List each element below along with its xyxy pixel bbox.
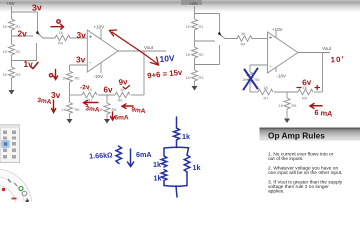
wire middle tap (right): [195, 40, 216, 42]
resistor R2 (left): [9, 44, 15, 55]
wire R5 to bottom node (right): [249, 83, 251, 92]
svg-text:R2: R2: [199, 52, 204, 57]
blue sketch wire resistor to parallel top bar: [176, 140, 178, 148]
svg-text:6v: 6v: [104, 86, 113, 95]
svg-text:1k: 1k: [153, 160, 161, 169]
toolbar palette panel: [0, 125, 20, 163]
wire R7 to 6V node (left): [98, 94, 115, 96]
blue sketch right branch lower wire: [186, 172, 188, 186]
wire R2 to R3 (right): [194, 58, 196, 70]
wire op-amp plus input (left): [70, 64, 88, 66]
ground symbol below R8 (right): [284, 119, 290, 124]
svg-text:one input will be on the other: one input will be on the other input.: [268, 170, 342, 176]
annotation minus sign left of 6V (right): [297, 87, 301, 89]
op-amp U2 triangle (right): [268, 32, 299, 73]
svg-text:+9V: +9V: [7, 1, 16, 6]
svg-text:6mA: 6mA: [136, 150, 152, 159]
resistor R5 (right): [247, 72, 253, 83]
annotation left arrow with 3mA under R7 (left): [84, 100, 99, 105]
wire feedback vertical from Vout (right): [322, 53, 324, 93]
svg-text:out of the inputs.: out of the inputs.: [268, 156, 303, 162]
wiper arrow of divider tap (right): [218, 31, 222, 36]
wire op-amp output to Vout (right): [298, 52, 330, 54]
svg-text:R9: R9: [302, 96, 307, 101]
svg-text:1k: 1k: [193, 163, 201, 172]
svg-text:+: +: [89, 35, 92, 41]
wire wiper to R4 (left): [39, 34, 56, 38]
svg-text:1K: 1K: [241, 31, 246, 36]
wire minus input down to R5 (right): [249, 65, 251, 72]
svg-text:+: +: [269, 36, 272, 42]
svg-text:1.66kΩ: 1.66kΩ: [89, 150, 113, 160]
wire -10V supply (right): [275, 68, 277, 73]
svg-text:-2v: -2v: [80, 84, 90, 92]
wire op-amp output to Vout (left): [118, 50, 166, 52]
svg-text:applies.: applies.: [268, 189, 285, 195]
svg-text:R8: R8: [292, 103, 297, 108]
blue sketch left branch resistor 1k lower: [161, 170, 167, 181]
svg-text:1K: 1K: [62, 76, 67, 81]
op-amp U1 triangle (left): [87, 30, 118, 72]
wire R9 to feedback corner (left): [131, 94, 144, 96]
svg-text:10ʼ: 10ʼ: [330, 55, 345, 65]
svg-text:R9: R9: [118, 98, 123, 103]
annotation down arrow for 3mA (left): [52, 100, 56, 113]
wire R1 to R2 (left): [11, 30, 13, 44]
svg-text:1K: 1K: [186, 75, 191, 80]
wire +10V supply (right): [275, 31, 277, 38]
svg-text:+9V: +9V: [190, 1, 199, 6]
wire R9 to feedback corner (right): [314, 91, 323, 93]
window top gradient bar: [0, 0, 360, 12]
wire R8 to ground (right): [286, 109, 288, 118]
wire R3 to ground (left): [11, 78, 13, 90]
resistor R7 (right): [258, 89, 273, 95]
dark title patch above right page: [181, 0, 202, 5]
svg-text:-10V: -10V: [94, 74, 104, 79]
svg-text:1K: 1K: [242, 77, 247, 82]
svg-text:3v: 3v: [76, 55, 86, 65]
radial pen menu at bottom-left corner: [0, 169, 32, 240]
blue X deleting R5 (right): [244, 69, 258, 90]
wire lower tap horizontal (right): [195, 64, 220, 66]
wire plus input down to R5 (left): [69, 65, 71, 71]
svg-text:Op Amp Rules: Op Amp Rules: [268, 131, 325, 141]
resistor R4 (left): [55, 35, 70, 41]
svg-text:2v: 2v: [18, 29, 28, 39]
resistor R3 (right): [192, 70, 198, 81]
wire R3 to ground (right): [194, 81, 196, 86]
svg-text:R3: R3: [16, 72, 21, 77]
svg-text:R8: R8: [112, 107, 117, 112]
wire 3V node down to R6 (left): [69, 95, 71, 103]
resistor R7 (left): [82, 92, 97, 98]
resistor R9 (left): [115, 92, 130, 98]
svg-text:-10V: -10V: [277, 74, 287, 79]
svg-text:R4: R4: [241, 42, 247, 47]
svg-text:1K: 1K: [264, 85, 269, 90]
svg-text:1K: 1K: [186, 52, 191, 57]
wire 1V tap vertical rise (left): [36, 43, 38, 61]
svg-text:R6: R6: [75, 107, 80, 112]
ground symbol below R8 (left): [104, 119, 110, 124]
wire R4 to op-amp plus input (right): [252, 38, 268, 40]
svg-text:Vout: Vout: [322, 46, 332, 51]
svg-text:1k: 1k: [154, 174, 162, 183]
wire +9V to R1 top (left): [11, 6, 13, 19]
svg-text:10V: 10V: [159, 53, 175, 64]
wire 3V tap vertical drop to wiper (left): [37, 12, 39, 30]
svg-text:R5: R5: [75, 76, 80, 81]
pen icons on ring: [8, 179, 11, 183]
wire top tap vertical drop to wiper (right): [219, 14, 221, 32]
svg-text:Vout: Vout: [144, 45, 154, 50]
svg-text:R5: R5: [255, 77, 260, 82]
svg-text:1K: 1K: [99, 107, 104, 112]
annotation down arrow 6mA below R8 (left): [111, 112, 115, 120]
wire node down to R8 (right): [286, 92, 288, 98]
svg-text:6v: 6v: [302, 78, 312, 88]
annotation left arrow with 9mA right of R8 (left): [122, 104, 133, 109]
wire 2V tap (left): [12, 35, 34, 37]
annotation double-headed arrow across output (left): [110, 30, 159, 65]
wire 3V tap horizontal (left): [12, 11, 38, 13]
blue sketch left branch resistor 1k upper: [161, 156, 167, 167]
svg-text:1K: 1K: [62, 107, 67, 112]
blue sketch right branch upper wire: [187, 148, 189, 155]
wire -10V supply (left): [100, 63, 102, 74]
wiper arrow of divider tap (left): [36, 30, 40, 35]
wire R7 to R9 node (right): [274, 91, 298, 93]
svg-text:1K: 1K: [3, 72, 8, 77]
wire +10V supply (left): [100, 29, 102, 40]
annotation tick below 9V (left): [123, 86, 130, 90]
wire wiper to R4 (right): [221, 35, 238, 39]
resistor R8 (right): [284, 98, 290, 109]
wire R4 to op-amp inverting stub (left): [70, 37, 87, 39]
ground symbol below R3 (left): [9, 90, 15, 95]
svg-text:R4: R4: [58, 41, 64, 46]
svg-text:1K: 1K: [279, 103, 284, 108]
svg-text:R7: R7: [88, 98, 93, 103]
blue sketch parallel top bar: [164, 146, 189, 149]
wire op-amp minus input (right): [250, 64, 268, 66]
annotation 0 current with right arrow above R4 (left): [51, 20, 64, 29]
svg-text:1k: 1k: [182, 132, 190, 141]
wire R1 to R2 (right): [194, 30, 196, 47]
blue sketch left branch upper wire: [163, 148, 165, 156]
wire R2 to R3 (left): [11, 55, 13, 67]
annotation checkmark near 1V wire (left): [31, 63, 39, 69]
wire +9V to R1 top (right): [194, 6, 196, 19]
wire R8 to ground (left): [106, 114, 108, 119]
blue sketch bottom stem wire: [176, 186, 177, 197]
svg-text:+10V: +10V: [94, 25, 105, 30]
Op Amp Rules header bar: [260, 128, 360, 141]
svg-text:R7: R7: [264, 96, 269, 101]
blue sketch down arrow 6mA: [128, 149, 134, 167]
annotation left arrow 6mA below R9 (right): [310, 104, 322, 109]
resistor R5 (left): [67, 71, 73, 82]
svg-text:1K: 1K: [3, 24, 8, 29]
svg-text:R2: R2: [16, 49, 21, 54]
ground symbol below R3 (right): [192, 86, 198, 91]
resistor R6 (left): [67, 103, 73, 114]
svg-text:3v: 3v: [51, 90, 61, 100]
wire node to R7 (right): [250, 91, 258, 93]
blue sketch series resistor 1k top: [174, 128, 180, 140]
svg-text:3mA: 3mA: [85, 105, 100, 113]
wire R6 to ground (left): [69, 114, 71, 120]
wire 6V node down to R8 (left): [106, 95, 108, 103]
svg-text:R3: R3: [199, 75, 204, 80]
blue sketch left branch lower wire: [163, 181, 165, 186]
wire lower tap vertical rise (right): [219, 45, 221, 65]
svg-text:6 mA: 6 mA: [314, 108, 333, 119]
resistor R3 (left): [9, 67, 15, 78]
svg-text:3v: 3v: [32, 2, 42, 13]
blue sketch right branch resistor 1k: [184, 155, 190, 172]
blue sketch parallel bottom bar: [164, 185, 187, 188]
resistor R4 (right): [237, 36, 252, 42]
resistor R9 (right): [298, 89, 313, 95]
svg-text:9v: 9v: [118, 77, 128, 87]
svg-text:R1: R1: [199, 24, 204, 29]
svg-text:3v: 3v: [77, 30, 87, 40]
wire feedback vertical from Vout (left): [143, 51, 145, 95]
blue sketch top feed wire: [176, 117, 178, 128]
wire R5 to 3V node (left): [69, 82, 71, 95]
svg-text:1K: 1K: [186, 24, 191, 29]
resistor R1 (left): [9, 19, 15, 30]
wire 1V tap horizontal (left): [12, 60, 37, 62]
svg-text:1K: 1K: [3, 49, 8, 54]
svg-text:-: -: [90, 60, 92, 66]
wire 3V node to R7 (left): [70, 94, 83, 96]
resistor R2 (right): [192, 47, 198, 58]
svg-text:-: -: [270, 64, 272, 70]
svg-text:1K: 1K: [59, 30, 64, 35]
svg-text:+10V: +10V: [272, 27, 283, 32]
svg-text:6mA: 6mA: [115, 115, 129, 122]
resistor R8 (left): [104, 103, 110, 114]
blue sketch equivalent resistor zigzag: [116, 146, 122, 164]
resistor R1 (right): [192, 19, 198, 30]
annotation plus sign right of 6V (right): [315, 85, 320, 89]
wire top tap horizontal (right): [195, 13, 220, 15]
annotation 0 with down arrow at R5 (left): [49, 70, 57, 80]
ground symbol below R6 (left): [67, 119, 73, 124]
